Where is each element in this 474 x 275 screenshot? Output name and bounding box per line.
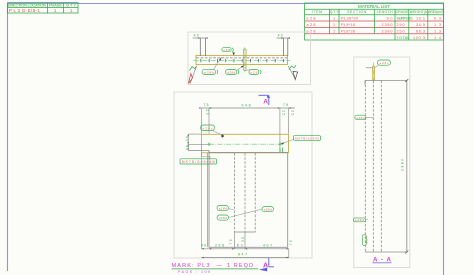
svg-text:298: 298 <box>215 243 224 247</box>
svg-text:1 REQD: 1 REQD <box>227 263 253 269</box>
svg-text:250: 250 <box>397 23 405 27</box>
svg-text:75: 75 <box>229 239 233 244</box>
dim oblique ticks on section right edge <box>405 79 408 254</box>
callout w28b (below plate left) <box>202 57 222 75</box>
svg-text:ERECTION LOCATION: ERECTION LOCATION <box>8 3 46 8</box>
callout a28d (below plate mid) <box>225 65 244 74</box>
dimension 40 left <box>193 33 208 56</box>
svg-text:e28: e28 <box>365 236 369 243</box>
gusset centerline <box>244 47 246 73</box>
svg-text:948: 948 <box>242 103 251 107</box>
svg-text:1: 1 <box>333 17 335 21</box>
callout e28 (front view, left top) <box>201 125 222 135</box>
svg-text:75: 75 <box>204 103 209 107</box>
svg-text:PAGE : 109: PAGE : 109 <box>178 270 210 274</box>
flange centerline <box>209 143 284 145</box>
svg-text:TOTAL: TOTAL <box>397 36 410 40</box>
svg-text:e28: e28 <box>250 71 257 75</box>
svg-text:A: A <box>263 99 268 106</box>
svg-text:e28d: e28d <box>264 208 272 212</box>
svg-text:1: 1 <box>333 30 335 34</box>
svg-text:WEIGHT(k: WEIGHT(k <box>410 10 427 14</box>
svg-text:p28d: p28d <box>219 216 227 220</box>
svg-text:MK7B/S0944B: MK7B/S0944B <box>182 160 216 164</box>
dimension 40 right <box>277 33 291 56</box>
section flag A (bottom) <box>259 258 274 271</box>
svg-text:e28c: e28c <box>380 61 389 65</box>
svg-text:MARK: PL3: MARK: PL3 <box>172 263 210 269</box>
svg-text:MK7B/S0945: MK7B/S0945 <box>295 136 319 140</box>
section view border <box>354 57 410 268</box>
svg-text:D-E/8-1: D-E/8-1 <box>22 8 41 13</box>
svg-text:40: 40 <box>201 243 206 247</box>
gusset plate seen edge-on (vertical yellow bar) <box>244 49 246 71</box>
MARK title <box>172 263 259 274</box>
svg-text:19.1: 19.1 <box>416 17 425 21</box>
svg-text:ITEM: ITEM <box>312 10 322 14</box>
svg-text:90: 90 <box>387 17 393 21</box>
svg-text:250: 250 <box>397 30 405 34</box>
svg-text:30: 30 <box>241 237 245 242</box>
svg-text:SURPLUS: SURPLUS <box>397 17 413 21</box>
top view flange plate outline <box>196 55 288 64</box>
svg-text:A: A <box>263 262 268 269</box>
svg-text:2380: 2380 <box>382 30 393 34</box>
svg-text:0.3: 0.3 <box>434 17 441 21</box>
centerline of plate <box>194 60 291 62</box>
svg-text:PL8*28: PL8*28 <box>341 30 355 34</box>
material list table (top right) <box>305 3 444 40</box>
weld symbol left (top view) <box>189 66 197 84</box>
svg-text:66.3: 66.3 <box>416 30 425 34</box>
svg-text:947: 947 <box>238 253 247 257</box>
extension lines from gusset <box>234 232 236 249</box>
svg-text:407: 407 <box>263 243 272 247</box>
callout p28 (section low) <box>353 218 368 222</box>
section flag A (top) <box>259 94 271 105</box>
callout e28 (mid right) <box>262 207 274 212</box>
top view border <box>188 32 311 85</box>
svg-text:75: 75 <box>283 103 288 107</box>
web plate second edge line (left) <box>207 153 209 248</box>
svg-text:e28: e28 <box>223 48 230 52</box>
svg-text:a28d: a28d <box>227 71 235 75</box>
svg-text:e28: e28 <box>307 17 316 21</box>
main plate rect (section) <box>365 81 407 253</box>
main web plate (front view) <box>209 153 288 248</box>
weld symbol right (top view) <box>288 65 297 79</box>
svg-text:w28b: w28b <box>204 70 214 74</box>
svg-text:1: 1 <box>333 23 335 27</box>
svg-text:40: 40 <box>278 33 283 37</box>
svg-text:PL9*16: PL9*16 <box>341 23 355 27</box>
vertical capsule callout <box>362 235 368 246</box>
svg-text:120.3: 120.3 <box>413 36 425 40</box>
svg-text:QTY: QTY <box>330 10 340 14</box>
bottom dimension line 1 <box>201 153 293 258</box>
weld tick marks <box>282 148 284 154</box>
hidden gusset lines (dashed) <box>235 153 256 232</box>
callout e28d (below plate right) <box>246 70 261 75</box>
leader dot on flange <box>221 134 224 138</box>
svg-text:2380: 2380 <box>382 23 393 27</box>
svg-text:1.4: 1.4 <box>434 36 441 40</box>
svg-text:PHASE: PHASE <box>49 3 62 8</box>
svg-text:1.3: 1.3 <box>434 30 441 34</box>
hidden edge line in plate <box>197 57 288 59</box>
bottom dimension line 2 (947) <box>202 253 289 259</box>
svg-text:SECTION: SECTION <box>347 10 367 14</box>
svg-text:30: 30 <box>185 136 189 141</box>
svg-text:25: 25 <box>282 110 286 115</box>
svg-text:25: 25 <box>291 110 295 115</box>
piece mark table (top left) <box>8 3 79 14</box>
svg-text:AREA(m2: AREA(m2 <box>428 10 443 14</box>
svg-text:a28: a28 <box>307 23 316 27</box>
gusset bottom edge <box>235 231 256 233</box>
callout p28 (lower left) <box>217 209 262 220</box>
svg-text:LENGTH: LENGTH <box>377 10 394 14</box>
svg-text:p28d: p28d <box>355 218 364 222</box>
svg-text:45: 45 <box>185 145 189 150</box>
small tick left of flange <box>366 67 373 69</box>
hidden lines (section) <box>365 81 381 253</box>
svg-text:MATERIAL LIST: MATERIAL LIST <box>358 4 390 9</box>
svg-text:GRADE: GRADE <box>395 10 409 14</box>
callout a28 (section mid) <box>355 115 373 120</box>
svg-text:e28c: e28c <box>203 126 213 130</box>
callout e28 (section top) <box>375 60 391 68</box>
svg-text:QTY: QTY <box>66 3 76 8</box>
callout box MK (right) <box>280 136 320 144</box>
A - A label <box>373 257 392 264</box>
svg-text:e28d: e28d <box>356 116 364 120</box>
left small dims 30/45 <box>185 134 209 150</box>
svg-text:PL3: PL3 <box>9 8 21 13</box>
callout a28 (mid left) <box>217 206 234 211</box>
callout box MK (left) <box>180 153 217 164</box>
top dimension line 75/948/75 <box>199 103 295 152</box>
callout e28 (top, above plate) <box>222 48 235 56</box>
svg-text:25: 25 <box>205 110 209 115</box>
svg-text:75: 75 <box>289 240 293 245</box>
svg-text:1.3: 1.3 <box>434 23 441 27</box>
svg-text:40: 40 <box>194 33 199 37</box>
svg-text:a28d: a28d <box>219 207 227 211</box>
svg-text:2380: 2380 <box>401 159 405 171</box>
svg-text:—: — <box>217 263 223 269</box>
svg-text:PL30*90: PL30*90 <box>341 17 358 21</box>
flange centerline (vertical) <box>373 63 375 84</box>
svg-text:34.5: 34.5 <box>416 23 425 27</box>
flange plate (front view, edge-on) <box>202 134 289 153</box>
flange edge-on (yellow bar, top) <box>373 66 375 81</box>
front view border <box>174 92 312 258</box>
hidden web edges through flange (green) <box>208 143 210 146</box>
bolt hole ticks <box>201 59 284 62</box>
